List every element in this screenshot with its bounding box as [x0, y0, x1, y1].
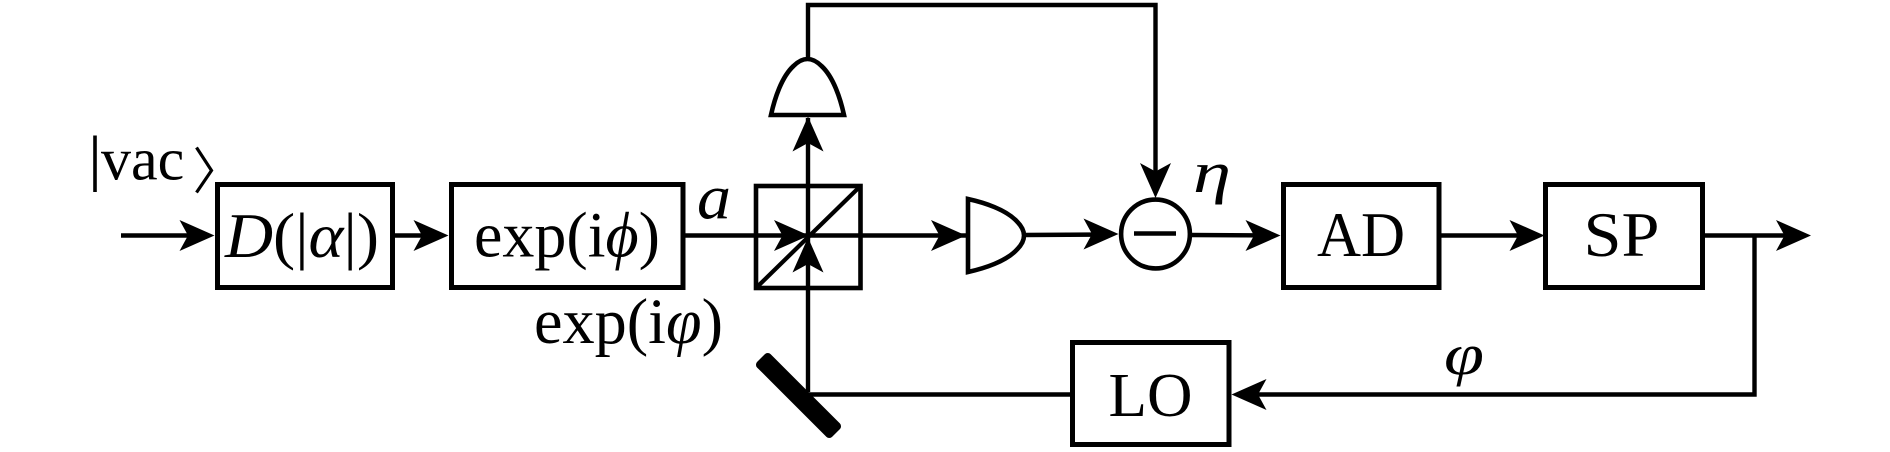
minus sign — [1134, 231, 1176, 235]
beamsplitter BS square — [756, 186, 861, 288]
photodetector — [968, 199, 1024, 272]
arrowhead into photodetector — [931, 220, 966, 251]
svg-text:vac: vac — [101, 127, 184, 193]
wire exp to photodetector through beamsplitter — [683, 233, 966, 237]
box AD — [1284, 185, 1440, 288]
arrowhead into SP — [1510, 220, 1545, 251]
wire LO to mirror — [806, 392, 1073, 396]
wire input — [121, 233, 208, 237]
box LO — [1073, 343, 1230, 445]
dome detector above beamsplitter — [771, 59, 844, 115]
mirror — [754, 351, 842, 439]
arrowhead up at BS center — [793, 238, 824, 273]
svg-text:LO: LO — [1109, 362, 1193, 430]
arrowhead up into dome detector — [793, 117, 824, 152]
arrowhead right at BS center — [774, 220, 809, 251]
box SP — [1546, 185, 1703, 288]
svg-text:SP: SP — [1584, 199, 1660, 270]
wire D to exp — [395, 233, 442, 237]
arrowhead down into subtractor — [1140, 163, 1171, 198]
box exp(i phi) — [452, 185, 684, 288]
svg-text:η: η — [1193, 140, 1231, 205]
arrowhead into LO — [1232, 379, 1267, 410]
svg-text:φ: φ — [1444, 322, 1484, 387]
svg-text:exp(iϕ): exp(iϕ) — [474, 200, 660, 272]
output arrowhead — [1776, 220, 1811, 251]
beamsplitter vertical wire (mirror to dome detector) — [806, 118, 810, 392]
svg-text:exp(iφ): exp(iφ) — [534, 286, 723, 358]
wire SP to output — [1703, 233, 1805, 237]
wire AD to SP — [1439, 233, 1538, 237]
box D(|alpha|) — [218, 185, 393, 288]
svg-text:AD: AD — [1317, 199, 1405, 270]
svg-text:D(|α|): D(|α|) — [224, 200, 379, 271]
arrowhead into AD — [1246, 220, 1281, 251]
arrowhead into subtractor — [1084, 219, 1119, 250]
wire subtractor to AD — [1190, 233, 1274, 238]
arrowhead into exp box — [414, 220, 449, 251]
wire photodetector to subtractor — [1024, 232, 1112, 237]
node |vac> label — [95, 127, 212, 193]
beamsplitter diagonal — [756, 186, 861, 288]
subtractor circle — [1121, 200, 1190, 269]
wire dome top, top feedback to subtractor — [808, 5, 1156, 192]
feedback wire down and left to LO — [1238, 236, 1755, 395]
arrowhead into D box — [180, 220, 215, 251]
svg-text:a: a — [697, 162, 731, 233]
